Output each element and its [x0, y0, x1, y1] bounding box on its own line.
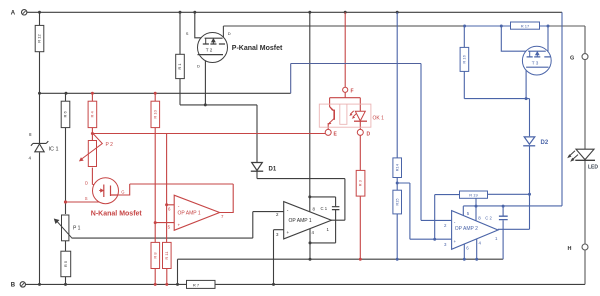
svg-text:C 1: C 1 [321, 206, 328, 211]
svg-text:R 3: R 3 [358, 179, 363, 186]
svg-text:OK 1: OK 1 [373, 116, 385, 122]
svg-text:D: D [367, 132, 371, 138]
svg-text:P 1: P 1 [73, 226, 81, 232]
svg-text:H: H [568, 246, 572, 252]
svg-text:R 12: R 12 [37, 34, 42, 43]
svg-text:D1: D1 [269, 167, 277, 173]
svg-text:S: S [186, 31, 189, 36]
svg-text:R15: R15 [394, 198, 399, 206]
svg-text:R 16: R 16 [461, 54, 466, 63]
svg-text:D: D [197, 64, 200, 69]
svg-text:LED: LED [588, 165, 598, 171]
svg-text:R 19: R 19 [469, 192, 478, 197]
svg-text:T 2: T 2 [206, 47, 213, 52]
svg-text:D: D [85, 180, 88, 185]
svg-text:T 3: T 3 [532, 60, 539, 65]
svg-text:B: B [11, 283, 16, 289]
svg-text:R 7: R 7 [193, 283, 200, 288]
svg-text:OP AMP 2: OP AMP 2 [455, 226, 478, 232]
svg-text:G: G [121, 190, 124, 195]
svg-text:F: F [351, 89, 354, 95]
svg-text:C 2: C 2 [485, 215, 492, 220]
svg-text:D2: D2 [541, 140, 549, 146]
svg-text:R 4: R 4 [89, 111, 94, 118]
svg-text:R 1: R 1 [177, 63, 182, 70]
svg-text:P-Kanal Mosfet: P-Kanal Mosfet [232, 45, 283, 52]
svg-text:A: A [11, 10, 16, 16]
svg-text:OP AMP 1: OP AMP 1 [178, 211, 201, 217]
svg-text:D: D [228, 31, 231, 36]
svg-text:+: + [454, 239, 457, 244]
svg-text:R 6: R 6 [63, 111, 68, 118]
svg-text:OP AMP 1: OP AMP 1 [289, 218, 312, 224]
svg-text:R 8: R 8 [152, 252, 157, 259]
svg-text:G: G [570, 56, 574, 62]
svg-text:+: + [178, 223, 181, 228]
svg-text:S: S [85, 196, 88, 201]
svg-text:+: + [287, 230, 290, 235]
svg-text:R 11: R 11 [164, 251, 169, 260]
svg-text:N-Kanal Mosfet: N-Kanal Mosfet [91, 210, 143, 217]
svg-text:R 17: R 17 [521, 23, 530, 28]
svg-text:P 2: P 2 [106, 142, 114, 148]
svg-text:R14: R14 [394, 163, 399, 171]
svg-text:R 5: R 5 [63, 260, 68, 267]
svg-text:R 10: R 10 [152, 109, 157, 118]
svg-text:IC 1: IC 1 [49, 147, 59, 153]
